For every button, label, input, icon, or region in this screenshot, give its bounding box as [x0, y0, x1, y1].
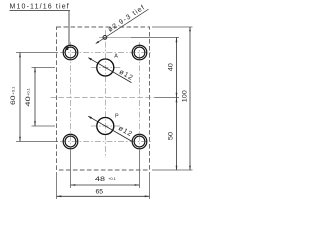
svg-text:40: 40	[167, 63, 174, 72]
svg-text:+0.1: +0.1	[108, 176, 117, 181]
diameter leader of port P	[88, 116, 134, 141]
svg-text:M10-11/16 tief: M10-11/16 tief	[10, 4, 70, 11]
port P circle	[97, 118, 114, 135]
extension line at pin level to right dimension	[131, 36, 179, 38]
extension line left bolt column to bottom dimension	[70, 150, 72, 188]
bolt hole bottom-left	[63, 134, 78, 149]
extension line at top bolt row to left dimension	[16, 52, 58, 54]
extension line at middle level to right dimension	[155, 97, 179, 99]
svg-text:+0.1: +0.1	[25, 87, 30, 96]
diameter leader of port A	[88, 57, 135, 82]
dimension 40 (right, pin level to middle)	[167, 37, 177, 97]
svg-text:A: A	[114, 54, 118, 60]
extension line at plate bottom to right dimensions	[152, 169, 193, 171]
label pin hole diameter with slanted leader	[95, 4, 148, 44]
svg-text:ø2.9-3 tief: ø2.9-3 tief	[107, 4, 147, 34]
label port A letter	[114, 54, 118, 60]
extension line right bolt column to bottom dimension	[139, 150, 141, 188]
extension line at plate top to right dimension	[152, 26, 193, 28]
extension line plate left edge to bottom dimension	[56, 172, 58, 199]
centerline horizontal through port A	[91, 67, 121, 69]
dimension 48 +0.1 (bolt column spacing, bottom)	[71, 176, 140, 186]
svg-text:P: P	[115, 114, 119, 120]
extension line at bottom bolt row to left dimension	[16, 141, 58, 143]
centerline horizontal through locating pin hole	[99, 36, 131, 38]
bolt hole bottom-right	[132, 134, 147, 149]
dimension 40 +0.1 (port A to port P, left inner)	[25, 68, 36, 127]
bolt hole top-right	[132, 45, 147, 60]
svg-text:ø12: ø12	[118, 69, 135, 83]
centerline horizontal through port P	[91, 125, 121, 127]
bolt hole top-left (outer circle)	[63, 45, 78, 60]
svg-text:+0.1: +0.1	[10, 86, 15, 95]
centerline horizontal through top bolt row	[60, 52, 152, 54]
centerline vertical through left bolt column	[70, 42, 72, 150]
centerline vertical through right bolt column	[139, 42, 141, 150]
extension line at port A level to left dimension	[32, 67, 56, 69]
svg-text:ø12: ø12	[117, 125, 134, 139]
dimension 100 (right outer, full plate height)	[181, 27, 191, 170]
centerline horizontal through plate middle	[51, 97, 156, 99]
dimension 65 (plate width, bottom)	[57, 189, 150, 198]
port A circle	[97, 59, 114, 76]
label port P letter	[115, 114, 119, 120]
svg-text:65: 65	[96, 189, 104, 196]
plate outline (dashed rectangle of mounting face)	[57, 27, 150, 170]
locating pin hole	[103, 36, 107, 40]
extension line at port P level to left dimensions	[32, 125, 56, 127]
centerline vertical through ports A and P	[104, 30, 106, 158]
centerline horizontal through bottom bolt row	[60, 141, 152, 143]
extension line plate right edge to bottom dimension	[149, 172, 151, 199]
label M10 bolt holes with leader	[10, 4, 71, 51]
dimension 50 (right, middle to plate bottom)	[167, 98, 177, 171]
svg-text:40: 40	[25, 96, 32, 107]
svg-text:48: 48	[95, 176, 105, 183]
svg-text:50: 50	[167, 132, 174, 141]
dimension 60 +0.1 (pin to port P, left outer)	[10, 53, 21, 142]
svg-text:60: 60	[10, 95, 17, 105]
svg-text:100: 100	[181, 90, 188, 102]
